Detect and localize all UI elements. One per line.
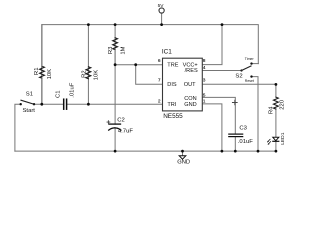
svg-text:TRE: TRE (167, 62, 178, 68)
svg-text:220: 220 (280, 99, 286, 110)
ground (179, 156, 186, 159)
capacitor C2 (109, 123, 121, 125)
node S2 reset rail (257, 150, 260, 153)
IC IC1 NE555 (163, 58, 203, 111)
node R3 top (114, 23, 117, 26)
wire DIS branch (136, 65, 163, 85)
svg-text:10K: 10K (47, 69, 53, 80)
svg-text:1M: 1M (120, 46, 126, 54)
wire top rail (42, 25, 259, 105)
wire GND stub (182, 151, 184, 156)
wire C2 branch (114, 65, 116, 124)
node C3 rail (234, 150, 237, 153)
switch S1 (20, 103, 22, 105)
svg-text:.01uF: .01uF (70, 82, 76, 97)
svg-text:R4: R4 (268, 106, 274, 114)
power 5V (159, 8, 164, 13)
wire pin 3 OUT (202, 83, 276, 85)
resistor R3 (113, 38, 118, 50)
svg-text:Timer: Timer (245, 57, 255, 61)
wire OUT to R4 (275, 84, 277, 97)
switch S2 (240, 69, 242, 71)
svg-text:C2: C2 (117, 117, 125, 123)
svg-text:Reset: Reset (245, 79, 254, 83)
svg-text:5V: 5V (158, 3, 165, 9)
svg-text:NE555: NE555 (163, 113, 183, 120)
resistor R4 (274, 97, 279, 109)
wire S2 timer stub (252, 63, 259, 65)
wire S2 reset drop (252, 77, 259, 152)
wire pin 5 CON to C3 (202, 97, 235, 134)
wire pin 1 GND (202, 104, 222, 151)
svg-text:GND: GND (177, 160, 190, 166)
node junction dots (40, 23, 277, 152)
svg-text:OUT: OUT (184, 82, 196, 88)
node VCC riser (221, 23, 224, 26)
svg-text:IC1: IC1 (162, 48, 172, 55)
svg-text:S1: S1 (26, 92, 33, 98)
svg-text:4.7uF: 4.7uF (118, 129, 133, 135)
wire VCC riser (202, 25, 222, 65)
wire S1 to C1 (34, 103, 64, 105)
node DIS branch (134, 63, 137, 66)
svg-text:DIS: DIS (167, 82, 177, 88)
wire left rail S1 (15, 104, 21, 151)
svg-text:GND: GND (184, 102, 196, 108)
node R2 top (87, 23, 90, 26)
node R1 bottom (40, 103, 43, 106)
resistor R1 (40, 66, 45, 78)
svg-text:R2: R2 (81, 70, 87, 78)
wire node A to pin 6 (115, 64, 163, 66)
wire R4 to LED (275, 109, 277, 137)
svg-text:TRI: TRI (167, 102, 176, 108)
capacitor C1 (63, 99, 65, 109)
wire R3 drop (114, 25, 116, 65)
svg-text:S2: S2 (235, 74, 242, 80)
wire C1 to pin 2 (67, 103, 163, 105)
node pin1 rail (221, 150, 224, 153)
node R2 bottom (87, 103, 90, 106)
svg-text:10K: 10K (93, 70, 99, 81)
node OUT corner (275, 83, 278, 86)
svg-text:C3: C3 (239, 126, 247, 132)
wire LED to rail (275, 141, 277, 151)
wire pin 4 to S2 pole (202, 70, 241, 72)
svg-text:C1: C1 (55, 90, 61, 98)
node C2 bottom (114, 150, 117, 153)
wire bottom rail (15, 150, 276, 152)
svg-text:R3: R3 (108, 46, 114, 54)
svg-text:R1: R1 (34, 68, 40, 76)
svg-text:/RES: /RES (185, 68, 198, 74)
svg-text:Start: Start (23, 108, 36, 114)
capacitor C3 (229, 133, 243, 135)
node GND rail (181, 150, 184, 153)
svg-text:.01uF: .01uF (238, 139, 253, 145)
wire R2 drop (87, 25, 89, 105)
svg-text:LED1: LED1 (280, 132, 286, 145)
svg-text:CON: CON (184, 96, 196, 102)
node A R3 bottom (114, 63, 117, 66)
node LED rail (275, 150, 278, 153)
node 5V (160, 23, 163, 26)
wire 5V stub (161, 13, 163, 24)
resistor R2 (86, 67, 91, 79)
LED LED1 (273, 137, 279, 140)
wire C3 to ground rail (234, 137, 236, 151)
